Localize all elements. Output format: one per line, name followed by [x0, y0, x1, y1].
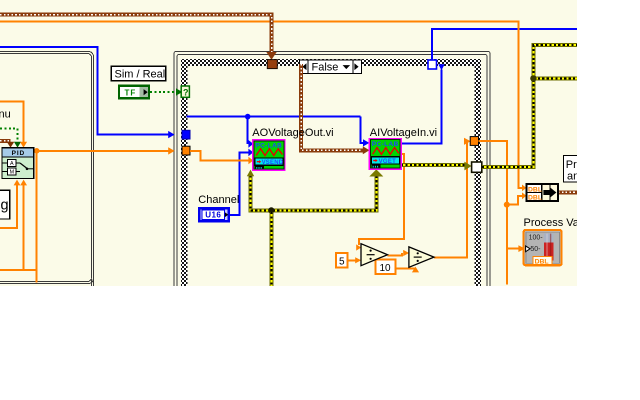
tunnel orange (case left border)	[182, 146, 190, 155]
arrow orange into right-border tunnel	[464, 138, 471, 145]
arrow blue into AOVoltageOut in2	[248, 149, 253, 157]
wire orange PID bottom feedback 2	[23, 185, 25, 270]
wire error branch right at y78	[533, 76, 577, 80]
case structure inner border	[177, 55, 487, 301]
arrow blue small down near top tunnel	[438, 64, 444, 70]
node orange junction right side	[504, 202, 510, 208]
constant 10	[376, 260, 396, 275]
svg-text:False: False	[312, 62, 339, 74]
node error wire junction	[268, 207, 274, 213]
arrow blue into left-border tunnel	[168, 131, 174, 138]
PID controller node	[2, 148, 34, 179]
arrow orange down into PID	[20, 142, 27, 148]
svg-text:an: an	[567, 171, 579, 183]
gauge free label box (clipped at right)	[564, 155, 586, 182]
U16 numeric control Channel	[199, 208, 228, 221]
node orange junction at PID output	[34, 148, 40, 154]
wire blue I32 from left loop to case (top-left)	[0, 47, 169, 134]
svg-text:5: 5	[339, 257, 345, 268]
wire blue to AIVoltageIn in1	[361, 117, 364, 143]
svg-text:TF: TF	[125, 88, 137, 97]
svg-text:50-: 50-	[530, 246, 541, 253]
wire blue from U16 Channel control to AOVoltageOut in2	[230, 152, 249, 215]
AOVoltageOut.vi icon U1	[252, 139, 285, 171]
arrow orange into bundle lower input	[522, 192, 526, 199]
wire orange PID junction down to loop bottom border	[36, 151, 38, 283]
tunnel blue (case left border)	[182, 130, 190, 139]
arrow error up into AIVoltageIn bottom	[369, 169, 383, 176]
wire error AIVoltageIn out to right-border tunnel	[401, 163, 465, 167]
divide node 2	[409, 247, 434, 267]
wire orange divide2 output up to right-border tunnel	[434, 141, 467, 257]
Sim / Real label box	[111, 66, 166, 81]
arrow brown down into PID in1	[7, 142, 15, 148]
arrow orange into bundle upper input	[522, 185, 526, 192]
arrow orange into gauge	[518, 245, 525, 252]
svg-text:DBL: DBL	[528, 187, 542, 194]
arrow brown into AIVoltageIn in2	[363, 146, 370, 154]
wire orange constant 5 to divide1	[348, 259, 356, 261]
wire error outside case up right and out	[482, 45, 578, 167]
arrow blue into AOVoltageOut in1	[248, 140, 253, 148]
while loop (left structure) outer border	[0, 52, 94, 287]
while loop right border extension to cream edge	[91, 279, 93, 286]
svg-text:g: g	[1, 198, 9, 214]
wire error cluster AO bottom to AI bottom	[251, 176, 377, 211]
case structure outer border	[174, 52, 490, 302]
tunnel error hollow (case right border)	[472, 162, 482, 172]
svg-text:10: 10	[380, 263, 392, 274]
wire blue from tunnel up and right to edge	[432, 29, 577, 60]
free label fragment g (in white box)	[0, 190, 10, 219]
wire blue AIVoltageIn out to top tunnel	[401, 70, 442, 144]
constant 5	[336, 253, 347, 268]
case structure selection dither band left	[181, 59, 188, 286]
arrow orange into divide1 lower input	[355, 257, 361, 263]
arrow green into ? tunnel	[176, 88, 182, 95]
wire blue junction down to AOVoltageOut in1	[247, 117, 249, 144]
wire orange DBL into PID in3	[0, 102, 24, 142]
Process Variable gauge indicator	[524, 230, 562, 265]
svg-text:A: A	[10, 161, 14, 167]
svg-text:VGET: VGET	[379, 159, 397, 165]
svg-text:nu: nu	[0, 108, 11, 120]
arrow orange into left-border tunnel	[168, 147, 174, 154]
wire orange PID output to case tunnel	[34, 150, 169, 152]
arrow orange up into PID bottom 2	[20, 180, 27, 186]
svg-text:M: M	[10, 169, 15, 175]
case structure selection dither band right	[475, 59, 482, 286]
wire brown cluster inside case to AIVoltageIn in2	[301, 64, 364, 150]
arrow orange into divide1 upper input	[356, 244, 361, 250]
tunnel case selector ?	[181, 86, 189, 97]
svg-text:AIVoltageIn.vi: AIVoltageIn.vi	[370, 127, 437, 139]
wire orange divide1 output to divide2	[388, 253, 403, 255]
wire orange outside case down right side	[479, 141, 507, 285]
divide node 1	[361, 244, 388, 266]
svg-text:PID: PID	[12, 150, 26, 157]
wire error junction down to bottom edge	[269, 212, 273, 286]
wire orange junction to bundle lower input	[507, 196, 523, 205]
svg-text:?: ?	[183, 88, 189, 98]
arrow orange up into PID bottom 1	[14, 180, 21, 186]
svg-text:DBL: DBL	[535, 258, 549, 265]
bundle node	[526, 184, 558, 201]
wire orange DBL long top wire to bundle upper input	[0, 22, 522, 188]
wire blue inside case horizontal	[187, 116, 361, 118]
arrow orange up into divide2 bottom	[412, 267, 419, 273]
svg-text:Sim / Real: Sim / Real	[115, 69, 166, 81]
tunnel brown (case top border)	[267, 60, 277, 69]
node blue wire junction	[245, 114, 251, 120]
arrow orange into divide2 upper input	[403, 250, 409, 256]
wire brown cluster top into case tunnel	[0, 15, 272, 52]
wire orange inside case from tunnel to AOVoltageOut in3	[190, 151, 249, 161]
arrow blue into AIVoltageIn in1	[363, 139, 369, 146]
AIVoltageIn.vi icon U2	[369, 138, 402, 170]
node error junction right side	[530, 75, 536, 81]
wire brown cluster into PID in1	[0, 139, 11, 143]
arrow error into right-border tunnel	[464, 162, 471, 171]
svg-text:VSEND: VSEND	[262, 160, 284, 166]
svg-text:U16: U16	[205, 211, 221, 220]
arrow orange into AOVoltageOut in3	[248, 157, 253, 165]
wire brown cluster bundle output	[558, 190, 578, 194]
svg-text:Pr: Pr	[566, 159, 577, 171]
svg-text:DBL: DBL	[528, 194, 542, 201]
svg-text:Channel: Channel	[198, 194, 239, 206]
case selector label box "False"	[300, 60, 362, 74]
wire orange constant 10 to divide2	[396, 267, 416, 269]
svg-text:Process Va: Process Va	[524, 217, 580, 229]
wire green boolean dashed from TF to case selector tunnel	[150, 91, 177, 93]
tunnel orange (case right border)	[470, 137, 478, 146]
wire orange AIVoltageIn output down to divide1	[359, 154, 404, 245]
wire orange bottom horizontal from left edge	[0, 269, 37, 271]
diagram background	[0, 0, 577, 286]
TF boolean control Sim/Real	[119, 86, 149, 99]
tunnel blue hollow (case top border)	[428, 60, 437, 69]
arrow error up into AOVoltageOut bottom	[247, 170, 254, 177]
wire orange PID bottom feedback 1	[0, 185, 17, 228]
arrow green down into PID	[14, 142, 21, 148]
svg-text:AOVoltageOut.vi: AOVoltageOut.vi	[252, 127, 333, 139]
while loop (left structure) inner border	[0, 54, 92, 282]
wire orange branch to Process Variable gauge	[507, 248, 519, 250]
wire green boolean dashed into PID in2	[0, 129, 18, 142]
case structure selection dither band top	[181, 59, 481, 66]
arrow brown down into top tunnel	[266, 52, 276, 60]
svg-text:100-: 100-	[529, 234, 544, 241]
